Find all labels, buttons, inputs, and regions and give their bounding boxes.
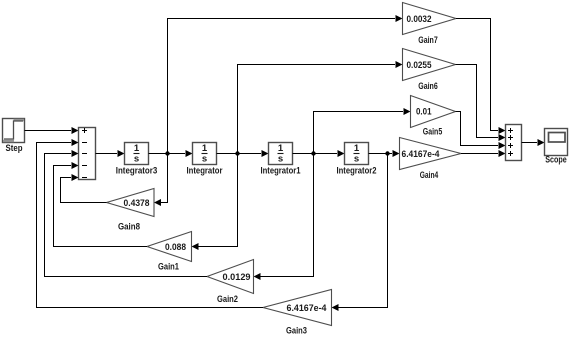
step source Step <box>3 119 25 143</box>
integrator Integrator1 <box>269 143 293 165</box>
gain Gain2 <box>207 260 254 294</box>
svg-text:Gain5: Gain5 <box>423 127 443 137</box>
svg-text:6.4167e-4: 6.4167e-4 <box>402 149 441 160</box>
svg-text:0.088: 0.088 <box>165 242 186 253</box>
svg-text:6.4167e-4: 6.4167e-4 <box>287 303 328 314</box>
gain Gain1 <box>147 232 192 262</box>
svg-text:Gain6: Gain6 <box>418 81 438 91</box>
wire Gain8 to Sum input 5 <box>61 174 107 203</box>
node after Integrator1 <box>311 151 315 155</box>
gain Gain6 <box>403 49 456 81</box>
svg-text:0.01: 0.01 <box>416 107 432 118</box>
wire Integrator2 to Gain4 <box>369 150 400 157</box>
gain Gain5 <box>411 96 456 128</box>
wire node down to Gain1 input <box>192 154 238 251</box>
svg-text:Step: Step <box>6 143 23 153</box>
wire Integrator3 to Integrator <box>149 150 193 157</box>
svg-text:Gain2: Gain2 <box>217 294 238 304</box>
svg-text:0.0255: 0.0255 <box>407 60 433 71</box>
svg-text:1: 1 <box>202 143 208 154</box>
svg-text:Integrator1: Integrator1 <box>261 166 301 176</box>
wire Integrator to Integrator1 <box>217 150 269 157</box>
integrator Integrator3 <box>125 143 149 165</box>
node after Integrator <box>235 151 239 155</box>
gain Gain7 <box>403 3 457 35</box>
wire Step to Sum input 1 <box>25 127 79 134</box>
svg-text:Gain3: Gain3 <box>286 326 307 336</box>
gain Gain3 <box>263 290 332 326</box>
wire node down to Gain2 input <box>254 154 314 281</box>
node after Integrator2 <box>385 151 389 155</box>
svg-text:0.4378: 0.4378 <box>124 198 150 209</box>
svg-text:Gain8: Gain8 <box>118 222 140 232</box>
gain Gain8 <box>107 189 155 217</box>
integrator Integrator <box>193 143 217 165</box>
svg-text:Integrator: Integrator <box>187 166 223 176</box>
wire Gain2 to Sum input 3 <box>45 150 208 277</box>
svg-text:Gain1: Gain1 <box>158 262 179 272</box>
wire node down to Gain8 input <box>154 154 168 207</box>
sum block Sum1 <box>506 125 522 161</box>
svg-text:Integrator2: Integrator2 <box>337 166 377 176</box>
svg-text:1: 1 <box>278 143 284 154</box>
wire Gain1 to Sum input 4 <box>54 162 148 247</box>
wire node down to Gain3 input <box>332 154 388 312</box>
svg-text:Integrator3: Integrator3 <box>116 166 158 176</box>
wire Gain4 to Sum1 input 4 <box>461 150 506 157</box>
node after Integrator3 <box>165 151 169 155</box>
svg-text:s: s <box>278 154 283 165</box>
wire Gain5 to Sum1 input 3 <box>456 112 506 150</box>
wire Integrator1 to Integrator2 <box>293 150 345 157</box>
integrator Integrator2 <box>345 143 369 165</box>
svg-text:0.0032: 0.0032 <box>407 14 432 25</box>
svg-text:s: s <box>202 154 207 165</box>
svg-text:s: s <box>134 154 139 165</box>
svg-text:Gain4: Gain4 <box>420 170 439 180</box>
svg-text:0.0129: 0.0129 <box>223 272 251 283</box>
svg-text:1: 1 <box>134 143 140 154</box>
wire node to Gain7 input <box>168 15 403 154</box>
svg-text:Gain7: Gain7 <box>418 35 438 45</box>
wire Sum1 to Scope <box>522 139 545 146</box>
wire node to Gain6 input <box>238 61 403 154</box>
wire Sum to Integrator3 <box>96 150 125 157</box>
wire node to Gain5 input <box>314 108 411 154</box>
wire Gain3 to Sum input 2 <box>37 139 264 308</box>
gain Gain4 <box>400 138 462 170</box>
sum block Sum <box>79 128 96 180</box>
wire Gain6 to Sum1 input 2 <box>456 65 506 142</box>
wire Gain7 to Sum1 input 1 <box>456 19 506 135</box>
svg-text:s: s <box>354 154 359 165</box>
svg-text:Scope: Scope <box>545 155 567 165</box>
scope Scope <box>545 129 568 156</box>
svg-text:1: 1 <box>354 143 360 154</box>
